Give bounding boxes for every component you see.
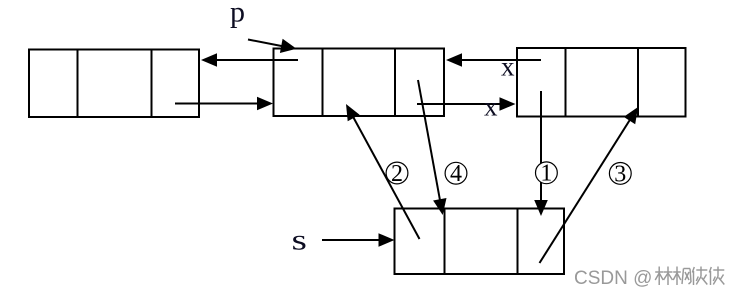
svg-text:1: 1 bbox=[540, 161, 552, 187]
svg-text:s: s bbox=[292, 223, 307, 256]
svg-text:4: 4 bbox=[450, 161, 462, 187]
svg-text:p: p bbox=[230, 0, 245, 29]
svg-text:CSDN @: CSDN @ bbox=[574, 268, 652, 289]
svg-text:2: 2 bbox=[391, 161, 403, 187]
svg-text:x: x bbox=[484, 92, 498, 122]
svg-text:3: 3 bbox=[614, 161, 626, 187]
svg-text:x: x bbox=[501, 52, 515, 82]
